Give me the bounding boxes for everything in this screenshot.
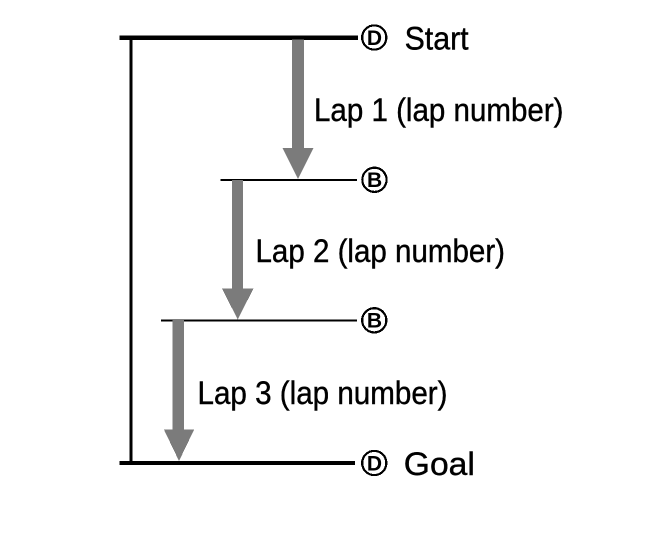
svg-text:Goal: Goal xyxy=(404,446,475,482)
lap line 3 xyxy=(161,320,357,322)
svg-text:Lap 2 (lap number): Lap 2 (lap number) xyxy=(256,233,506,269)
bottom goal line xyxy=(120,461,356,465)
circled D goal marker xyxy=(362,451,386,475)
circled D start marker xyxy=(362,25,386,49)
svg-text:Start: Start xyxy=(405,20,469,56)
svg-text:D: D xyxy=(367,27,382,50)
top start line xyxy=(120,36,359,41)
arrow lap 1 xyxy=(282,40,313,180)
svg-text:B: B xyxy=(367,310,382,333)
svg-text:Lap 3 (lap number): Lap 3 (lap number) xyxy=(198,375,448,411)
left vertical time axis wire xyxy=(130,36,133,465)
arrow lap 2 xyxy=(222,180,254,320)
lap line 2 xyxy=(221,179,358,181)
svg-text:B: B xyxy=(367,169,382,192)
svg-text:Lap 1 (lap number): Lap 1 (lap number) xyxy=(314,92,564,128)
svg-text:D: D xyxy=(367,452,382,475)
circled B lap marker 2 xyxy=(362,308,386,332)
circled B lap marker 1 xyxy=(362,168,386,192)
arrow lap 3 xyxy=(164,320,194,461)
